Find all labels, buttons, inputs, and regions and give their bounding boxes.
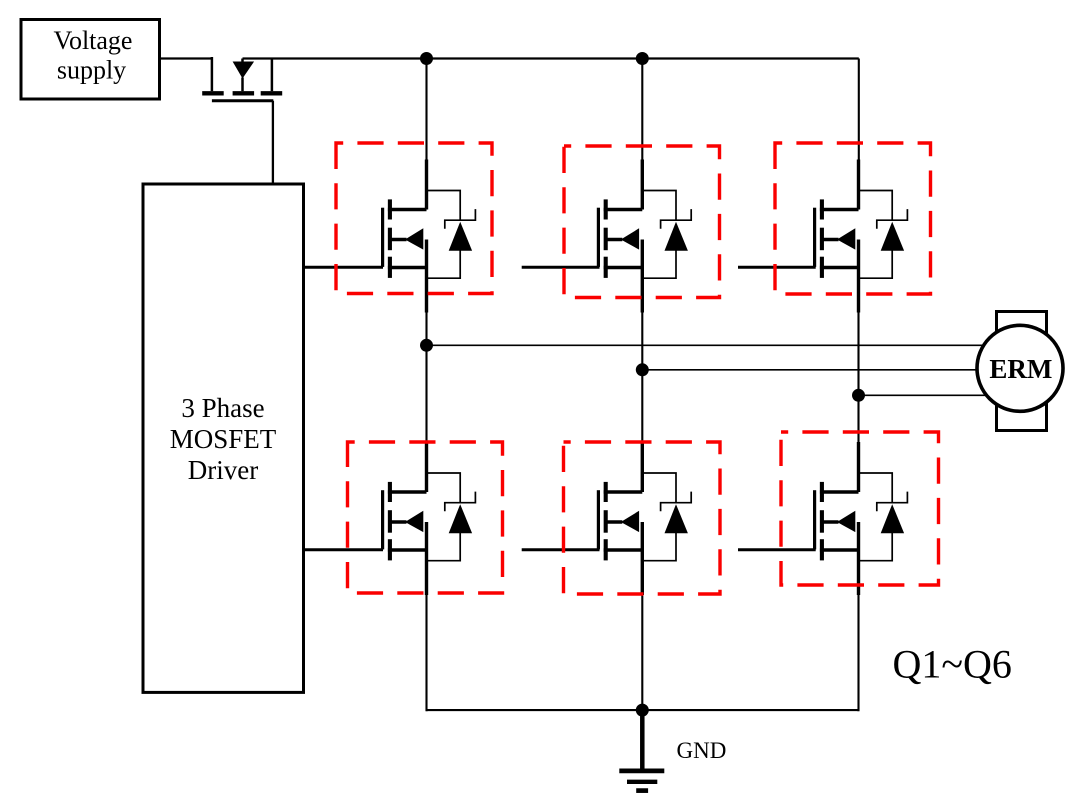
wire phase column B upper: [641, 59, 643, 161]
wire phase column B middle: [641, 308, 643, 444]
node phase C output: [852, 389, 865, 402]
transistor Q4: [598, 442, 691, 595]
transistor Q2: [383, 442, 476, 595]
wire phase column B lower: [641, 593, 643, 710]
wire stub to Q3 gate: [522, 266, 600, 269]
node ground rail: [636, 704, 649, 717]
wire stub to Q5 gate: [738, 266, 816, 269]
wire phase column C lower: [857, 593, 859, 711]
red dashed box around Q6: [781, 432, 939, 585]
wire phase A to motor: [427, 344, 988, 346]
node top rail phase B: [636, 52, 649, 65]
wire driver to Q1 gate: [304, 266, 383, 269]
wire supply to high-side transistor: [161, 57, 213, 59]
wire stub to Q4 gate: [522, 548, 600, 551]
ground symbol: [619, 710, 664, 791]
wire phase B to motor: [642, 369, 978, 371]
wire driver to Q2 gate: [304, 548, 383, 551]
svg-text:Voltage: Voltage: [54, 26, 133, 55]
wire bottom ground rail: [427, 709, 859, 711]
transistor Q6: [815, 442, 908, 595]
red dashed box around Q5: [775, 143, 931, 294]
node phase B output: [636, 363, 649, 376]
transistor Q3: [598, 160, 691, 313]
wire phase C to motor: [859, 394, 987, 396]
transistor Q0 high-side P-MOSFET: [202, 57, 282, 101]
transistor Q5: [815, 160, 908, 313]
svg-text:Q1~Q6: Q1~Q6: [893, 642, 1012, 687]
svg-text:GND: GND: [677, 738, 727, 763]
svg-text:supply: supply: [57, 56, 126, 85]
3 Phase MOSFET Driver U1: [143, 184, 304, 692]
red dashed box around Q2: [348, 442, 503, 593]
wire phase column C upper: [858, 59, 860, 161]
wire stub to Q6 gate: [738, 548, 816, 551]
node phase A output: [420, 339, 433, 352]
node top rail phase A: [420, 52, 433, 65]
transistor Q1: [383, 160, 476, 313]
wire phase column C middle: [857, 308, 859, 444]
svg-text:Driver: Driver: [188, 455, 258, 485]
red dashed box around Q1: [336, 143, 492, 294]
ERM motor M1: [977, 312, 1063, 431]
wire phase column A upper: [425, 59, 427, 161]
wire transistor gate to driver: [272, 101, 274, 184]
svg-text:MOSFET: MOSFET: [170, 424, 277, 454]
svg-text:3 Phase: 3 Phase: [181, 393, 264, 423]
red dashed box around Q3: [564, 146, 720, 298]
wire phase column A middle: [425, 308, 427, 444]
svg-text:ERM: ERM: [989, 354, 1052, 384]
wire phase column A lower: [425, 593, 427, 711]
wire top supply rail: [243, 57, 859, 59]
red dashed box around Q4: [564, 442, 721, 594]
voltage supply box: [21, 20, 160, 100]
